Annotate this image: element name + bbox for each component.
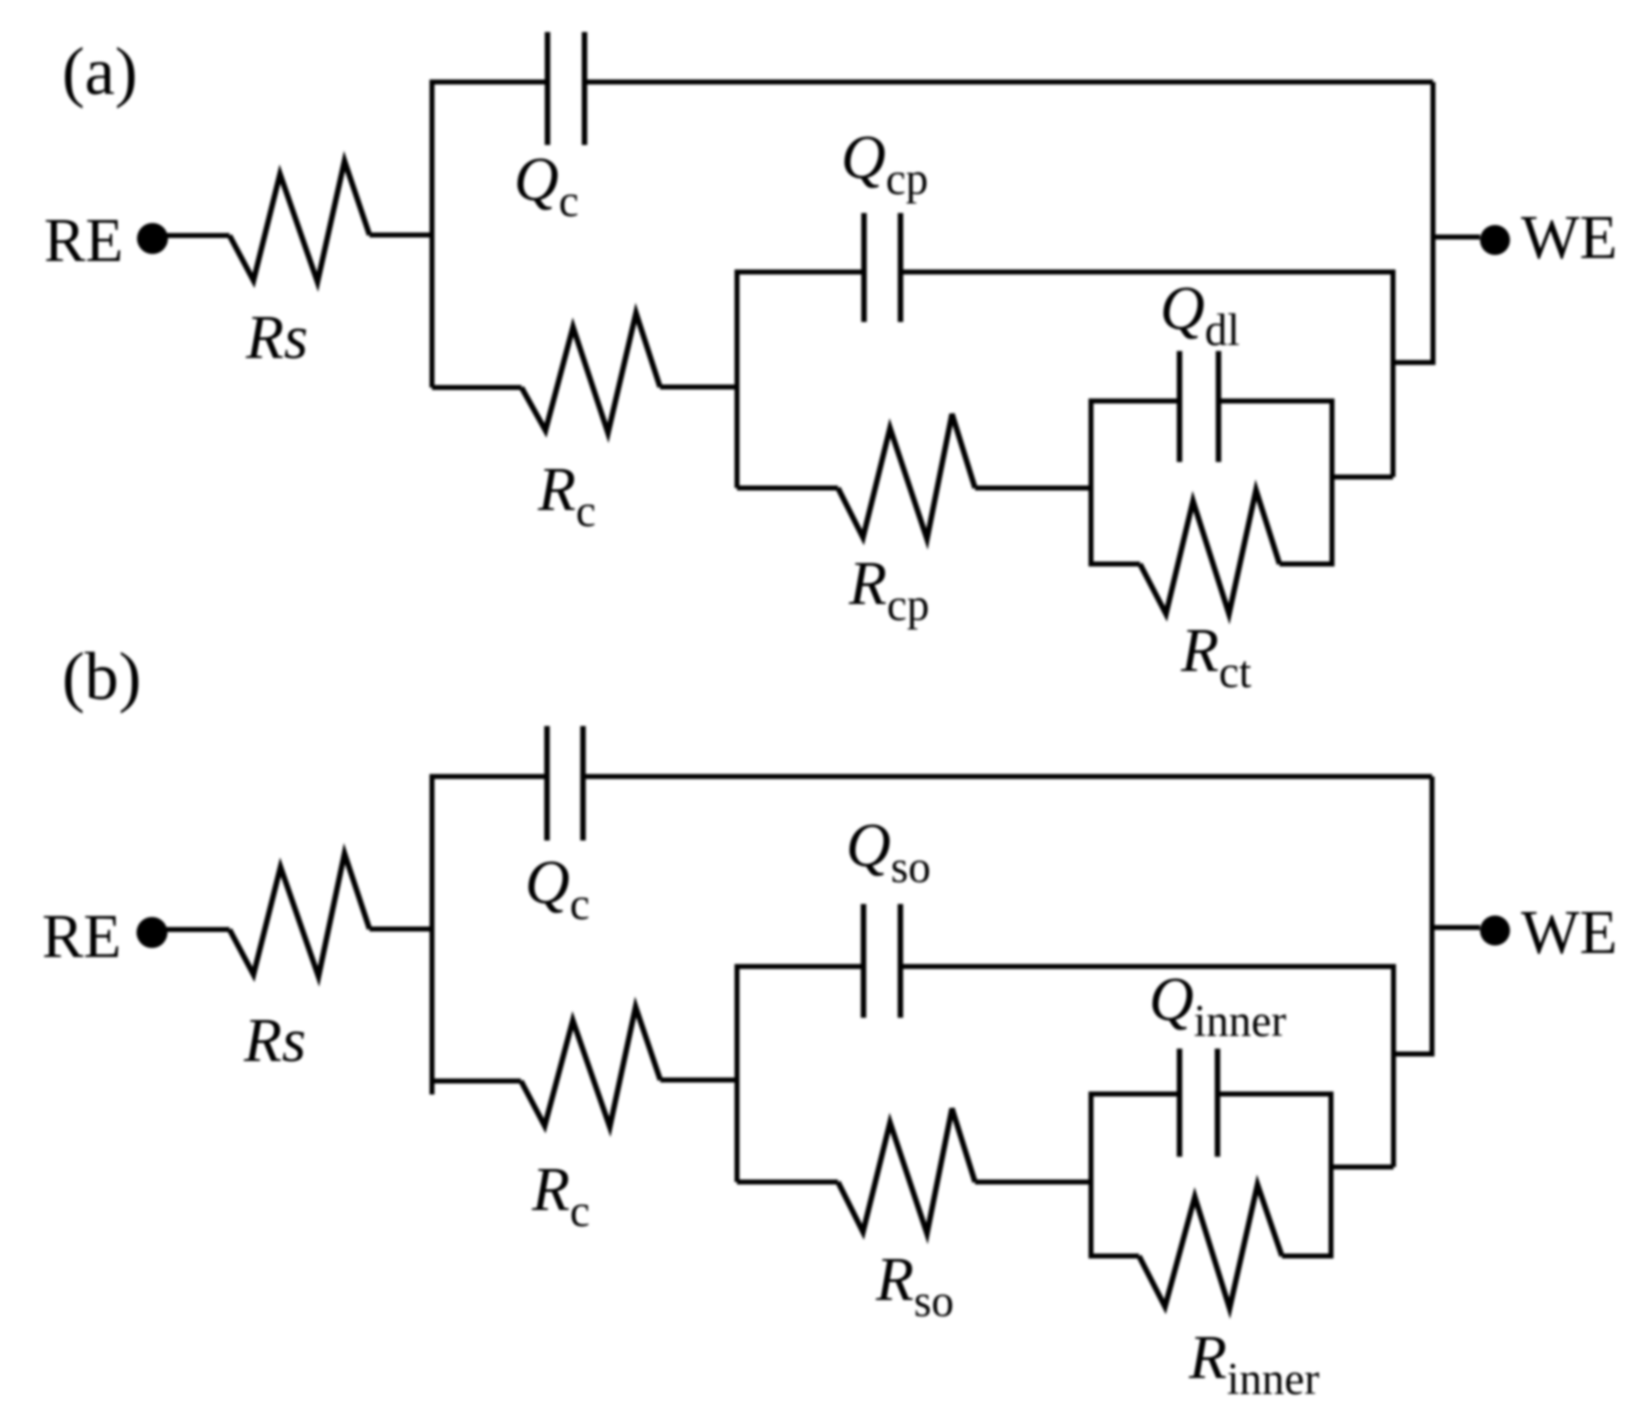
inner box top-right wire (b) bbox=[1219, 1092, 1331, 1097]
node A vertical wire (a) bbox=[430, 80, 435, 388]
wire node C to Qso (b) bbox=[737, 964, 862, 969]
inner box bottom-right wire (a) bbox=[1280, 562, 1333, 567]
capacitor Qcp (a) bbox=[864, 213, 901, 322]
svg-text:WE: WE bbox=[1521, 204, 1617, 272]
wire Rcp to inner box (a) bbox=[975, 486, 1091, 491]
wire WE stub (a) bbox=[1433, 235, 1480, 240]
inner box bottom-left wire (a) bbox=[1091, 562, 1140, 567]
wire Rc to node C (b) bbox=[660, 1078, 737, 1083]
resistor Rs (b) bbox=[230, 854, 370, 977]
node RE dot (b) bbox=[137, 917, 168, 948]
wire node A to Rc (b) bbox=[432, 1079, 521, 1084]
inner box left wire (a) bbox=[1089, 399, 1094, 567]
inner box top-left wire (b) bbox=[1091, 1092, 1178, 1097]
wire Qcp to node D vertical (a) bbox=[902, 270, 1393, 275]
node WE dot (a) bbox=[1480, 225, 1510, 255]
inner box top-left wire (a) bbox=[1091, 399, 1178, 404]
inner box left wire (b) bbox=[1089, 1092, 1094, 1259]
inner box top-right wire (a) bbox=[1220, 399, 1332, 404]
capacitor Qinner (b) bbox=[1180, 1049, 1218, 1157]
inner box bottom-right wire (b) bbox=[1282, 1254, 1331, 1259]
wire WE stub (b) bbox=[1432, 925, 1480, 930]
wire right vertical WE side (a) bbox=[1431, 82, 1436, 363]
svg-text:WE: WE bbox=[1521, 899, 1617, 967]
wire right vertical WE side (b) bbox=[1430, 777, 1435, 1055]
svg-text:RE: RE bbox=[44, 207, 123, 275]
wire inner box to node D (b) bbox=[1331, 1165, 1394, 1170]
resistor Rs (a) bbox=[230, 161, 370, 282]
resistor Rc (a) bbox=[522, 313, 661, 433]
capacitor Qdl (a) bbox=[1180, 351, 1219, 462]
wire RE to Rs (a) bbox=[164, 233, 230, 238]
node A vertical wire (b) bbox=[430, 774, 435, 1095]
resistor Rso (b) bbox=[838, 1109, 975, 1234]
wire Qc to WE vertical (b) bbox=[585, 774, 1432, 779]
inner box bottom-left wire (b) bbox=[1091, 1254, 1139, 1259]
wire node C to Rcp (a) bbox=[737, 486, 838, 491]
resistor Rct (a) bbox=[1140, 490, 1280, 614]
resistor Rc (b) bbox=[521, 1007, 660, 1127]
wire connector node D (b) bbox=[1394, 1052, 1435, 1057]
resistor Rcp (a) bbox=[838, 414, 975, 539]
svg-text:(a): (a) bbox=[62, 33, 137, 109]
wire Qc to WE vertical (a) bbox=[586, 80, 1433, 85]
wire connector node D (a) bbox=[1393, 360, 1436, 365]
wire node A to Rc (a) bbox=[432, 385, 522, 390]
wire Qso to node D vertical (b) bbox=[902, 964, 1394, 969]
svg-text:Rs: Rs bbox=[243, 1007, 306, 1075]
node C vertical wire (b) bbox=[735, 964, 740, 1182]
svg-text:Rs: Rs bbox=[245, 304, 308, 372]
node RE dot (a) bbox=[137, 223, 168, 254]
svg-text:(b): (b) bbox=[62, 638, 141, 714]
capacitor Qc (a) bbox=[548, 32, 585, 145]
wire node A to Qc (a) bbox=[432, 80, 546, 85]
wire inner box to node D (a) bbox=[1332, 475, 1393, 480]
wire Rs to node A (b) bbox=[370, 927, 433, 932]
wire RE to Rs (b) bbox=[165, 927, 230, 932]
wire node C to Qcp (a) bbox=[737, 270, 863, 275]
resistor Rinner (b) bbox=[1139, 1185, 1282, 1309]
inner box right wire (a) bbox=[1330, 399, 1335, 567]
inner box right wire (b) bbox=[1329, 1092, 1334, 1259]
wire Rso to inner box (b) bbox=[975, 1180, 1091, 1185]
wire node A to Qc (b) bbox=[432, 774, 546, 779]
node D vertical wire (b) bbox=[1391, 964, 1396, 1167]
wire node C to Rso (b) bbox=[737, 1180, 838, 1185]
capacitor Qc (b) bbox=[547, 726, 583, 841]
wire Rc to node C (a) bbox=[660, 385, 737, 390]
svg-text:RE: RE bbox=[42, 903, 121, 971]
node D vertical wire (a) bbox=[1391, 270, 1396, 478]
node C vertical wire (a) bbox=[735, 270, 740, 489]
wire Rs to node A (a) bbox=[370, 233, 433, 238]
capacitor Qso (b) bbox=[864, 904, 901, 1018]
node WE dot (b) bbox=[1480, 916, 1510, 946]
